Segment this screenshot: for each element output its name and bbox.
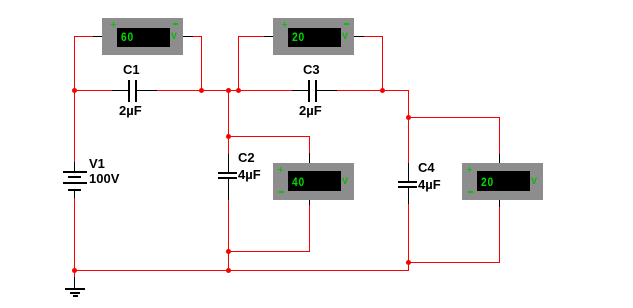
label C4 bbox=[418, 161, 435, 174]
capacitor C4 bbox=[408, 163, 409, 182]
wire: right vertical x=408 from top row down to C4 bbox=[408, 90, 409, 164]
wire: voltmeter M2 left lead vertical bbox=[238, 36, 239, 91]
wire: branch voltmeter M4 bottom horizontal y=262 bbox=[408, 262, 500, 263]
label C3 bbox=[303, 63, 320, 76]
pin: voltmeter M4 bottom (-) terminal bbox=[499, 200, 500, 207]
voltmeter M4 (reads 20 V) bbox=[462, 163, 543, 200]
wire: battery bottom vertical to bottom net bbox=[74, 198, 75, 271]
wire: voltmeter M2 right lead vertical down to node bbox=[382, 36, 383, 91]
node: junction voltmeter M3 top branch bbox=[226, 134, 231, 139]
wire: voltmeter M1 right lead vertical down to node bbox=[201, 36, 202, 91]
battery V1 bbox=[74, 162, 75, 172]
wire: voltmeter M2 left lead horizontal y=36 bbox=[238, 36, 265, 37]
node: junction voltmeter M4 bottom branch bbox=[406, 260, 411, 265]
node: junction C2 branch on bottom net bbox=[226, 268, 231, 273]
wire: voltmeter M3 top lead vertical bbox=[309, 136, 310, 154]
node: junction voltmeter M4 top branch bbox=[406, 115, 411, 120]
capacitor C1 bbox=[112, 90, 129, 91]
wire: voltmeter M1 left lead horizontal y=36 bbox=[74, 36, 93, 37]
pin: voltmeter M1 right (-) terminal bbox=[183, 36, 193, 37]
label C2 value 4uF bbox=[238, 168, 261, 181]
capacitor C2 bbox=[228, 154, 229, 173]
voltmeter M3 (reads 40 V) bbox=[273, 163, 354, 200]
wire: C2 bottom vertical bbox=[228, 200, 229, 271]
node: junction battery/ground on bottom net bbox=[72, 268, 77, 273]
node: junction voltmeter M2 left lead on top net bbox=[236, 88, 241, 93]
pin: voltmeter M3 top (+) terminal bbox=[309, 153, 310, 163]
node: junction V1/C1 top-left bbox=[72, 88, 77, 93]
wire: ground stub below junction bbox=[74, 270, 75, 278]
ground bbox=[74, 277, 75, 289]
node: junction voltmeter M3 bottom branch bbox=[226, 249, 231, 254]
voltmeter M2 (reads 20 V) bbox=[273, 18, 354, 55]
wire: left vertical from voltmeter M1 down through node A to battery top bbox=[74, 36, 75, 162]
capacitor C3 bbox=[292, 90, 309, 91]
node: junction C2 branch on top net bbox=[226, 88, 231, 93]
pin: voltmeter M3 bottom (-) terminal bbox=[309, 200, 310, 205]
wire: bottom ground net y=270 bbox=[74, 270, 409, 271]
pin: voltmeter M4 top (+) terminal bbox=[499, 154, 500, 163]
wire: voltmeter M1 right lead horizontal y=36 bbox=[193, 36, 202, 37]
label C1 bbox=[123, 63, 140, 76]
label C2 bbox=[238, 151, 255, 164]
label C4 value 4uF bbox=[418, 178, 441, 191]
wire: branch voltmeter M3 bottom horizontal y=251 bbox=[228, 251, 310, 252]
wire: main top horizontal net (V1+ / C1 / C3 row) y=90 bbox=[74, 90, 129, 91]
wire: voltmeter M2 right lead horizontal y=36 bbox=[364, 36, 383, 37]
wire: voltmeter M4 bottom lead vertical bbox=[499, 207, 500, 263]
pin: voltmeter M2 left (+) terminal bbox=[264, 36, 273, 37]
node: junction voltmeter M1 right lead on top net bbox=[199, 88, 204, 93]
wire: C2 branch vertical x=228 top part bbox=[228, 90, 229, 155]
wire: branch to voltmeter M3 top, y=136 bbox=[228, 136, 310, 137]
node: junction voltmeter M2 right lead on top net bbox=[380, 88, 385, 93]
label C3 value 2uF bbox=[299, 104, 322, 117]
wire: voltmeter M4 top lead vertical bbox=[499, 117, 500, 155]
wire: C4 bottom vertical to bottom net bbox=[408, 204, 409, 271]
label C1 value 2uF bbox=[119, 104, 142, 117]
pin: voltmeter M2 right (-) terminal bbox=[354, 36, 364, 37]
label V1 bbox=[89, 157, 105, 170]
voltmeter M1 (reads 60 V) bbox=[102, 18, 183, 55]
pin: voltmeter M1 left (+) terminal bbox=[93, 36, 102, 37]
wire: branch to voltmeter M4 top, y=117 bbox=[408, 117, 500, 118]
label V1 value 100V bbox=[89, 172, 119, 185]
wire: voltmeter M3 bottom lead vertical bbox=[309, 205, 310, 252]
